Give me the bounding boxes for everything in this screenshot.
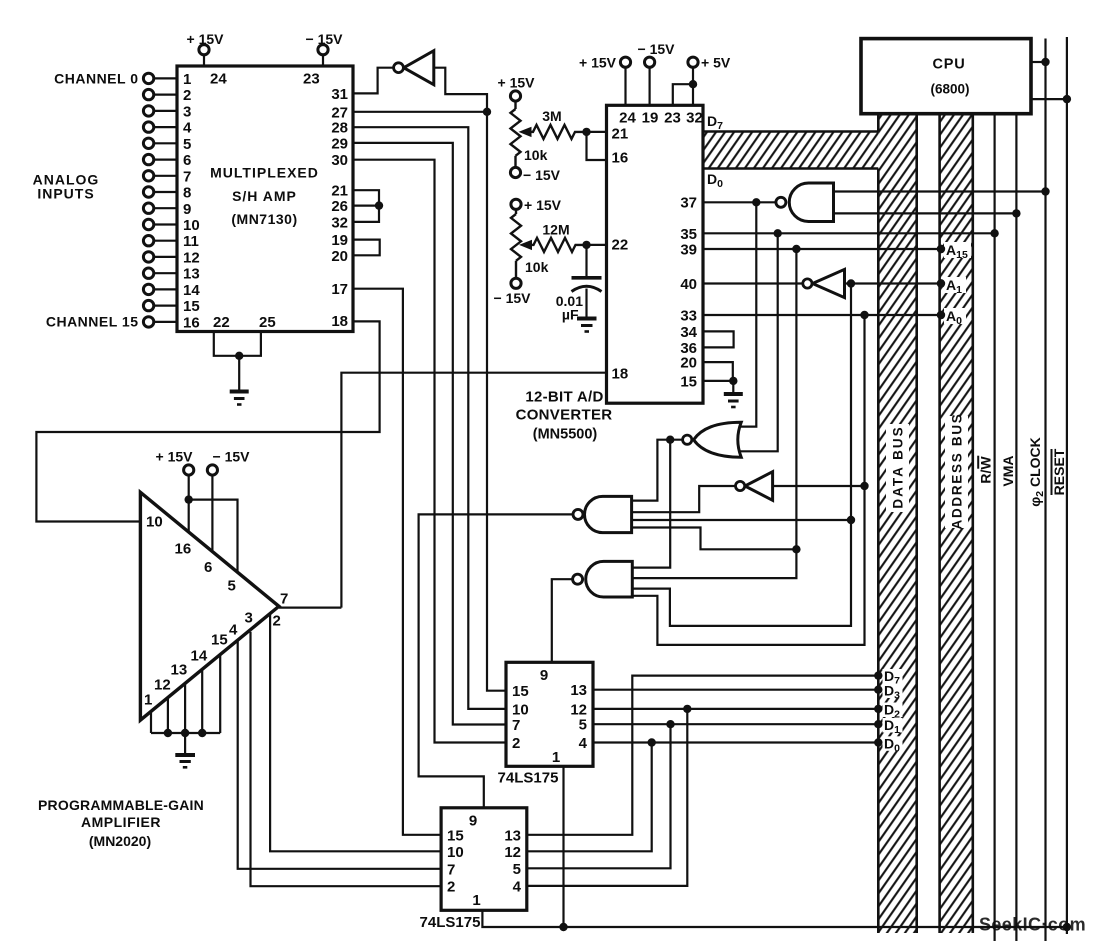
svg-text:+ 15V: + 15V <box>524 197 562 213</box>
svg-text:+ 15V: + 15V <box>187 31 225 47</box>
svg-text:MULTIPLEXED: MULTIPLEXED <box>210 165 319 181</box>
svg-text:13: 13 <box>504 827 521 844</box>
svg-text:RESET: RESET <box>1051 448 1067 495</box>
wire PGA pin2 to lower pin10 <box>270 614 441 852</box>
svg-text:+ 5V: + 5V <box>701 55 731 71</box>
node CPU/phi2 <box>1041 58 1049 66</box>
register U10 74LS175 (upper) <box>506 662 593 766</box>
svg-text:24: 24 <box>210 71 227 88</box>
wiper arrow R1 <box>519 127 532 137</box>
wire pin31 to inverter input <box>353 68 393 94</box>
svg-text:24: 24 <box>619 109 636 126</box>
capacitor C1 0.01uF <box>556 245 602 323</box>
wire PGA pin4 to lower pin7 <box>238 641 441 869</box>
wire NAND1 input4 to A15 net <box>632 528 797 550</box>
svg-text:1: 1 <box>183 71 191 88</box>
wire pot2 to ADC pin22 <box>587 244 607 246</box>
node D1 bus <box>874 720 882 728</box>
svg-text:32: 32 <box>686 109 703 126</box>
svg-text:12: 12 <box>183 250 200 267</box>
svg-text:µF: µF <box>562 307 579 323</box>
node inverter/A1 branch <box>847 279 855 287</box>
multiplexer U1 MN7130 box <box>177 66 353 332</box>
svg-text:VMA: VMA <box>1000 455 1016 486</box>
ground ADC pin15 <box>724 381 743 407</box>
wire inverter output to pin27 net <box>434 68 487 112</box>
svg-text:13: 13 <box>570 682 587 699</box>
svg-text:7: 7 <box>512 717 520 734</box>
svg-text:(MN7130): (MN7130) <box>231 211 297 227</box>
wire PGA pin3 to lower pin2 <box>251 632 442 887</box>
wire A1 net vertical (from inverter node down) <box>632 284 851 626</box>
node D2 branch <box>683 705 691 713</box>
svg-text:16: 16 <box>183 314 200 331</box>
wire ADC pin39 to A15 <box>703 248 941 250</box>
svg-text:12: 12 <box>154 676 171 693</box>
svg-text:22: 22 <box>612 237 629 254</box>
supply -15V ADC pin19 <box>638 41 676 105</box>
wire RESET line <box>1066 37 1068 934</box>
svg-text:25: 25 <box>259 314 276 331</box>
node CPU/RESET <box>1063 95 1071 103</box>
svg-text:6: 6 <box>204 559 212 576</box>
svg-text:40: 40 <box>680 276 697 293</box>
svg-text:29: 29 <box>331 135 348 152</box>
node D0 bus <box>874 738 882 746</box>
svg-text:74LS175: 74LS175 <box>498 770 559 787</box>
label D7 bus <box>883 668 903 687</box>
ground PGA <box>175 733 195 767</box>
potentiometer R1 10k (upper) <box>511 101 521 167</box>
node pin1 junction <box>559 923 567 931</box>
label PROGRAMMABLE-GAIN AMPLIFIER (MN2020) <box>38 797 204 849</box>
svg-text:2: 2 <box>512 735 520 752</box>
node pot2/pin22/cap <box>582 241 590 249</box>
svg-text:7: 7 <box>280 591 288 608</box>
node pin35/NOR branch <box>774 229 782 237</box>
node pin27/inverter junction <box>483 108 491 116</box>
MN7130 right pin numbers <box>331 86 348 330</box>
address bus band <box>940 114 973 933</box>
wire ADC pin18 from PGA output <box>341 373 606 608</box>
svg-text:11: 11 <box>183 233 199 250</box>
node A1 <box>937 279 945 287</box>
svg-text:19: 19 <box>331 232 348 249</box>
node PGA gnd 2 <box>181 729 189 737</box>
label 12-BIT A/D CONVERTER (MN5500) <box>516 389 613 443</box>
svg-text:26: 26 <box>331 198 348 215</box>
supply +15V pot1 <box>498 75 536 101</box>
wire ADC pin33 to A0 <box>703 314 941 316</box>
wire pot1 to ADC pin21 and pin16 <box>587 132 607 160</box>
node D0 branch <box>648 738 656 746</box>
svg-text:13: 13 <box>171 661 188 678</box>
node A0 <box>937 311 945 319</box>
inverter U7 <box>736 472 773 501</box>
supply -15V pin23 <box>306 31 344 66</box>
svg-text:37: 37 <box>680 195 697 212</box>
resistor R4 12M (horizontal zigzag) <box>530 238 587 252</box>
svg-text:ADDRESS BUS: ADDRESS BUS <box>950 413 965 530</box>
svg-text:8: 8 <box>183 185 191 202</box>
node NOR output branch <box>666 436 674 444</box>
svg-text:12: 12 <box>504 844 521 861</box>
svg-text:12-BIT A/D: 12-BIT A/D <box>525 389 603 406</box>
nor U6 <box>683 422 742 457</box>
node pin37/NOR branch <box>752 198 760 206</box>
label RESET <box>1051 448 1067 495</box>
supply -15V PGA <box>207 449 250 476</box>
cpu U5 box <box>861 39 1031 114</box>
node pin33 branch <box>860 311 868 319</box>
node pin35/RW <box>990 229 998 237</box>
svg-text:10k: 10k <box>524 147 548 163</box>
node inverter input / A0 branch <box>860 482 868 490</box>
wire pin18 to PGA pin10 <box>36 321 379 521</box>
svg-text:3M: 3M <box>542 108 561 124</box>
node pin15/pin20 ground <box>729 377 737 385</box>
svg-text:4: 4 <box>183 120 192 137</box>
node D7 bus <box>874 671 882 679</box>
supply -15V pot2 <box>494 278 532 306</box>
svg-text:− 15V: − 15V <box>213 449 251 465</box>
wire pins 19-20 bracket <box>353 240 380 256</box>
svg-text:5: 5 <box>183 136 191 153</box>
svg-text:10: 10 <box>183 217 200 234</box>
wire inverter U7 output to NAND1 input2 <box>632 486 736 512</box>
MN7130 left pin numbers <box>183 71 200 331</box>
svg-text:AMPLIFIER: AMPLIFIER <box>81 814 161 830</box>
MN7130 ground (pins 22,25) <box>214 332 261 405</box>
svg-text:DATA BUS: DATA BUS <box>891 425 906 508</box>
wire NAND1 output to lower 74LS175 pin9 <box>419 514 573 807</box>
svg-text:+ 15V: + 15V <box>579 55 617 71</box>
wire ADC pin37 <box>703 201 776 203</box>
svg-text:39: 39 <box>680 242 697 259</box>
svg-text:− 15V: − 15V <box>494 290 532 306</box>
svg-text:14: 14 <box>191 647 208 664</box>
nand U9 (lower 4-input) <box>573 561 633 597</box>
svg-text:4: 4 <box>513 878 522 895</box>
svg-text:35: 35 <box>680 226 697 243</box>
wire D1 upper pin5 <box>593 723 878 725</box>
svg-text:(MN5500): (MN5500) <box>533 427 598 443</box>
node +15V branch <box>185 495 193 503</box>
svg-text:− 15V: − 15V <box>638 41 676 57</box>
wire -15V to PGA pin6 <box>211 475 213 552</box>
svg-text:34: 34 <box>680 324 697 341</box>
wire pin27 <box>353 111 487 113</box>
node D1 branch <box>666 720 674 728</box>
supply +15V pot2 <box>511 197 562 213</box>
svg-text:12M: 12M <box>542 222 569 238</box>
label A1 <box>937 277 966 296</box>
wire +15V to PGA pin16 and pin5 <box>189 475 238 572</box>
svg-text:23: 23 <box>664 109 681 126</box>
inverter U5 (A1) <box>803 269 941 297</box>
label D2 bus <box>883 702 903 721</box>
svg-text:PROGRAMMABLE-GAIN: PROGRAMMABLE-GAIN <box>38 797 204 813</box>
adc U3 MN5500 box <box>607 105 704 403</box>
wires PGA bottom pins to ground bar <box>151 655 220 734</box>
svg-text:28: 28 <box>331 120 348 137</box>
svg-text:4: 4 <box>579 735 588 752</box>
svg-text:1: 1 <box>144 691 152 708</box>
svg-text:15: 15 <box>211 631 228 648</box>
wire ADC pin40 to inverter <box>703 282 803 284</box>
svg-text:32: 32 <box>331 214 348 231</box>
svg-text:1: 1 <box>472 892 480 909</box>
svg-text:15: 15 <box>447 828 464 845</box>
svg-text:6: 6 <box>183 152 191 169</box>
svg-text:5: 5 <box>228 578 236 595</box>
wire ADC pin35 to R/W <box>703 232 995 234</box>
wire ADC pin20 to ground <box>703 362 733 381</box>
svg-text:2: 2 <box>447 879 455 896</box>
svg-text:33: 33 <box>680 308 697 325</box>
svg-text:1: 1 <box>552 749 560 766</box>
wiper arrow R3 <box>519 240 532 250</box>
wire inverter U7 input from A0 line <box>773 485 865 487</box>
svg-text:(6800): (6800) <box>930 82 969 97</box>
node reset junction <box>1063 923 1071 931</box>
svg-text:5: 5 <box>513 861 521 878</box>
svg-text:9: 9 <box>540 667 548 684</box>
wire NOR input2 from pin35 node <box>740 233 778 451</box>
svg-text:4: 4 <box>229 622 238 639</box>
svg-text:S/H AMP: S/H AMP <box>232 188 297 204</box>
supply +15V PGA <box>156 449 194 476</box>
wire upper 74LS175 pin1 down <box>562 766 564 927</box>
svg-text:13: 13 <box>183 266 200 283</box>
wire NAND U4 input from phi2 <box>834 190 1046 192</box>
node phi2 input <box>1041 187 1049 195</box>
ADDRESS BUS label <box>945 413 968 530</box>
svg-text:(MN2020): (MN2020) <box>89 833 151 849</box>
svg-text:18: 18 <box>331 313 348 330</box>
wire PGA output pin7 <box>279 606 342 608</box>
supply -15V pot1 <box>510 167 560 183</box>
svg-text:23: 23 <box>303 71 320 88</box>
wire D2 upper pin12 <box>593 708 878 710</box>
wire CPU to phi2 clock <box>1031 61 1046 63</box>
wire lower 74LS175 pin1 to RESET <box>482 910 1067 927</box>
svg-text:7: 7 <box>447 861 455 878</box>
label A0 <box>937 308 966 327</box>
wire pin27 bus down to 74LS175 pin15 <box>487 112 506 691</box>
wire NOR input1 from pin37 node <box>740 202 757 426</box>
svg-text:9: 9 <box>183 201 191 218</box>
channel input terminals pins 1-16 <box>154 78 177 322</box>
svg-text:30: 30 <box>331 152 348 169</box>
supply +15V ADC pin24 <box>579 55 631 106</box>
svg-text:− 15V: − 15V <box>306 31 344 47</box>
svg-text:CHANNEL 15: CHANNEL 15 <box>46 313 139 329</box>
wire A0 net vertical (pin33 node down to NAND2 input4) <box>632 315 864 645</box>
label D3 bus <box>883 683 903 702</box>
label A15 <box>937 242 971 261</box>
svg-text:2: 2 <box>183 87 191 104</box>
svg-text:21: 21 <box>612 126 629 143</box>
wire pin17 down to lower 74LS175 pin15 <box>353 289 441 835</box>
svg-text:CPU: CPU <box>932 57 965 73</box>
wire NAND2 output to upper 74LS175 pin9 <box>552 579 573 662</box>
svg-text:16: 16 <box>612 150 629 167</box>
svg-text:+ 15V: + 15V <box>156 449 194 465</box>
svg-text:10: 10 <box>512 701 529 718</box>
wire pin30 down to 74LS175 pin2 <box>353 160 506 743</box>
node pin26 <box>375 201 383 209</box>
wire pin29 down to 74LS175 pin7 <box>353 143 506 725</box>
PGA pin labels <box>144 513 288 708</box>
node VMA input <box>1012 209 1020 217</box>
svg-text:14: 14 <box>183 282 200 299</box>
potentiometer R3 10k (lower) <box>511 209 521 278</box>
node pot1/pin21 <box>582 128 590 136</box>
svg-text:10: 10 <box>146 513 163 530</box>
wire NAND U4 input from VMA <box>834 212 1017 214</box>
node D3 bus <box>874 686 882 694</box>
svg-text:16: 16 <box>175 541 192 558</box>
wire ADC pin15 to ground <box>703 380 733 382</box>
label D0 bus <box>883 735 903 754</box>
node pin39 branch <box>792 245 800 253</box>
svg-text:9: 9 <box>469 813 477 830</box>
node D2 bus <box>874 705 882 713</box>
node PGA gnd 1 <box>164 729 172 737</box>
supply +15V pin24 <box>187 31 225 66</box>
nand U4 (drives ADC pin37) <box>776 183 834 222</box>
svg-text:15: 15 <box>512 683 529 700</box>
svg-text:17: 17 <box>331 281 348 298</box>
svg-text:7: 7 <box>183 168 191 185</box>
svg-text:SeekIC·com: SeekIC·com <box>979 915 1086 935</box>
svg-text:22: 22 <box>213 314 230 331</box>
inverter U2 <box>394 51 434 85</box>
wire D7 line to lower 74LS175 pin13 <box>527 676 879 835</box>
wire A15 net vertical (pin39 node down to NAND2 input2) <box>632 249 796 578</box>
svg-text:3: 3 <box>245 610 253 627</box>
svg-text:− 15V: − 15V <box>523 167 561 183</box>
svg-text:19: 19 <box>642 109 659 126</box>
svg-text:2: 2 <box>273 613 281 630</box>
svg-text:3: 3 <box>183 103 191 120</box>
wire pin28 down to 74LS175 pin10 <box>353 127 506 709</box>
label D1 bus <box>883 717 903 736</box>
svg-text:20: 20 <box>680 355 697 372</box>
node NAND1 input3 / A1 <box>847 516 855 524</box>
wire NOR output branch to NAND2 input1 <box>632 440 670 568</box>
svg-text:+ 15V: + 15V <box>498 75 536 91</box>
svg-text:R/W: R/W <box>978 456 994 484</box>
svg-text:74LS175: 74LS175 <box>420 914 481 931</box>
data bus horizontal band (D7..D0 from ADC) <box>704 132 878 169</box>
node A15 <box>937 245 945 253</box>
DATA BUS label <box>886 424 909 512</box>
wire D1 branch to lower pin5 <box>527 724 671 868</box>
ground below C1 <box>577 319 597 332</box>
wire NOR output to NAND1/NAND2 inputs <box>632 440 683 501</box>
register U11 74LS175 (lower) <box>441 808 527 911</box>
pga U4 MN2020 triangle <box>140 492 279 720</box>
label R/W <box>978 456 994 484</box>
wire D0 branch to lower pin12 <box>527 743 652 852</box>
wire pins 21-26-32 bracket <box>353 190 379 222</box>
svg-text:10: 10 <box>447 844 464 861</box>
svg-text:15: 15 <box>183 298 200 315</box>
wire CPU to RESET <box>1031 98 1067 100</box>
supply +5V ADC pins23,32 <box>673 55 731 106</box>
wire NAND1 input3 from A1 net <box>632 519 851 521</box>
svg-text:CHANNEL 0: CHANNEL 0 <box>54 70 138 86</box>
svg-text:10k: 10k <box>525 259 549 275</box>
wire VMA line <box>1015 114 1017 941</box>
nand U8 (upper 4-input) <box>573 496 632 532</box>
svg-text:31: 31 <box>331 86 348 103</box>
wire R/W line <box>993 114 995 941</box>
resistor R2 3M (horizontal zigzag) <box>530 125 587 139</box>
wire D3 upper pin13 <box>593 689 878 691</box>
svg-text:20: 20 <box>331 248 348 265</box>
wire D0 upper pin4 <box>593 741 878 743</box>
wire phi2 clock line <box>1044 39 1046 942</box>
wire D2 branch to lower pin4 <box>527 709 688 886</box>
svg-text:CONVERTER: CONVERTER <box>516 407 613 424</box>
svg-text:15: 15 <box>680 373 697 390</box>
node PGA gnd 3 <box>198 729 206 737</box>
data bus vertical band <box>878 114 916 933</box>
node NAND1 input4 / A15 <box>792 545 800 553</box>
wire ADC pins34-36 bracket <box>703 331 734 347</box>
svg-text:18: 18 <box>612 365 629 382</box>
svg-text:5: 5 <box>579 717 587 734</box>
svg-text:INPUTS: INPUTS <box>37 186 94 202</box>
